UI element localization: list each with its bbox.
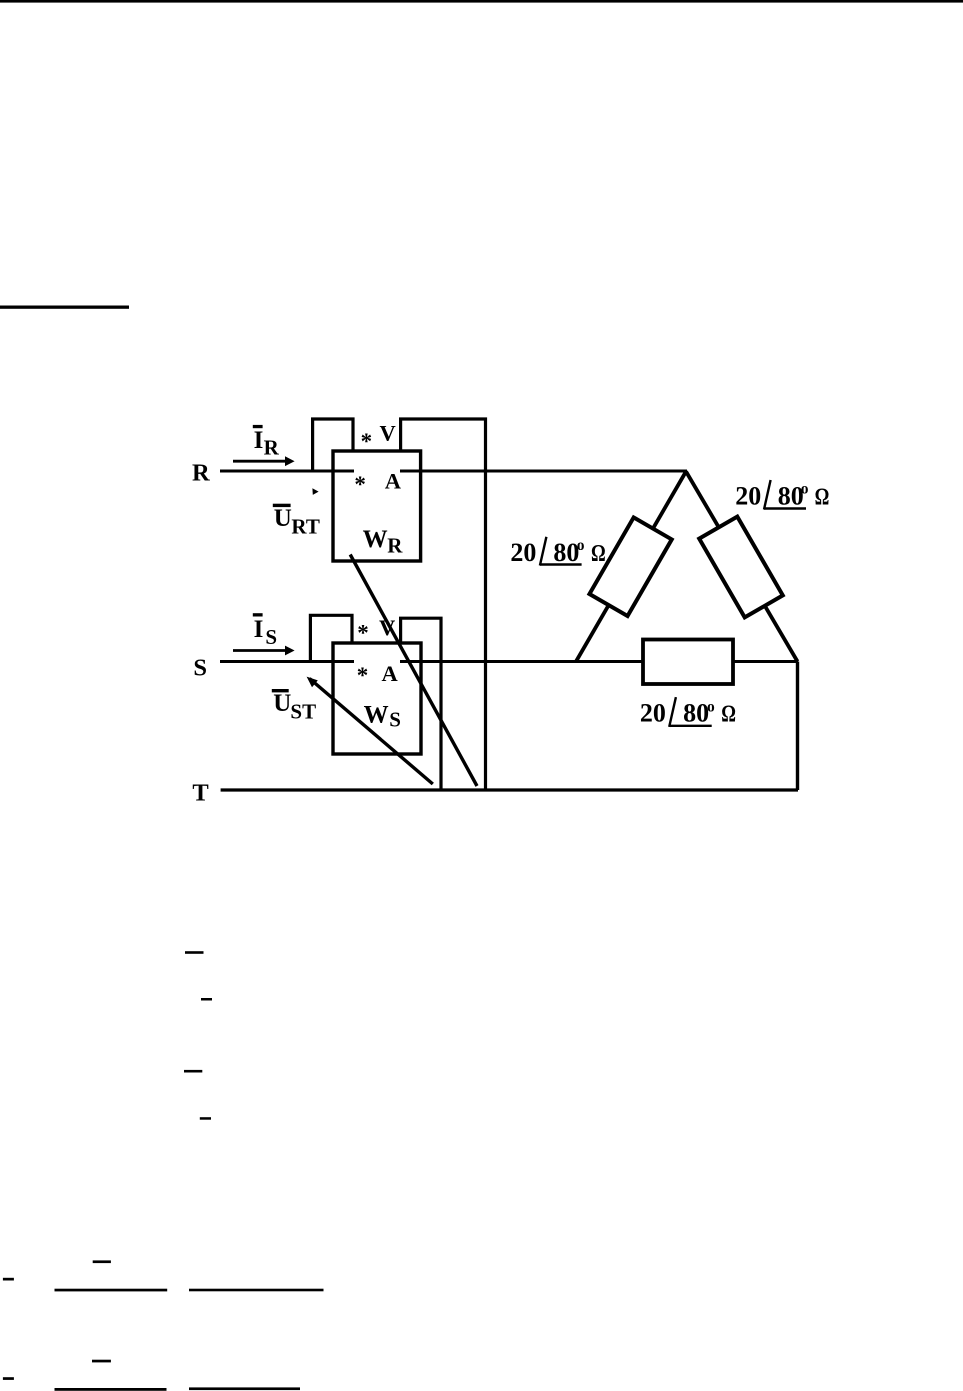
fraction bar 1 (formula group 2): [55, 1388, 167, 1391]
svg-text:S: S: [389, 708, 401, 732]
svg-text:80: 80: [683, 698, 709, 727]
svg-text:20: 20: [510, 538, 536, 567]
wire W_R voltage coil to node T: [401, 419, 486, 790]
svg-text:S: S: [265, 625, 277, 649]
overbar mark at margin (formula group 2): [3, 1377, 14, 1380]
impedance Z3 (bottom leg, 20∠80°): [643, 640, 733, 685]
overbar mark (formula group 2): [92, 1360, 111, 1363]
wattmeter W_R box: [333, 451, 421, 561]
overbar mark (equation line 1): [185, 951, 204, 954]
voltage arrow U_RT arrowhead: [312, 488, 318, 495]
label U_ST: [272, 689, 316, 723]
delta leg R (apex to left vertex, wire): [576, 472, 686, 662]
impedance Z1 (left leg, 20∠80°): [589, 517, 671, 616]
fraction bar 2 (formula group 2): [189, 1387, 300, 1390]
current arrow I_R: [233, 456, 295, 466]
svg-text:Ω: Ω: [721, 700, 736, 727]
delta leg (apex to right vertex, wire): [686, 472, 798, 662]
wire R line left segment: [220, 470, 354, 473]
svg-text:I: I: [254, 616, 264, 643]
label 20/80 ohm (bottom leg): [640, 697, 736, 727]
svg-text:A: A: [382, 661, 399, 686]
svg-text:S: S: [193, 655, 207, 682]
page top rule: [0, 0, 963, 3]
label I_R: [253, 425, 280, 460]
overbar mark (equation line 4): [200, 1117, 211, 1120]
left margin rule: [0, 306, 129, 309]
label 20/80 ohm (right leg): [735, 480, 829, 510]
svg-text:V: V: [379, 615, 395, 640]
wire S line left segment: [220, 660, 354, 663]
fraction bar 1 (formula group 1): [55, 1289, 168, 1292]
label W_S: [364, 702, 401, 732]
svg-text:o: o: [577, 537, 585, 554]
svg-text:*: *: [357, 621, 369, 646]
impedance Z2 (right leg, 20∠80°): [699, 517, 783, 618]
overbar mark (formula group 1): [93, 1260, 111, 1263]
wattmeter W_R voltage-terminal loop wire: [313, 419, 353, 472]
voltage arrow U_ST arrowhead: [307, 677, 318, 688]
voltage arrow U_ST line (to T wire): [310, 679, 433, 785]
label I_S: [253, 613, 277, 649]
svg-text:*: *: [354, 472, 366, 497]
svg-text:Ω: Ω: [815, 483, 830, 510]
wire T line: [221, 788, 798, 791]
svg-text:*: *: [361, 429, 373, 454]
wattmeter W_S voltage-terminal loop wire: [310, 615, 352, 661]
label 20/80 ohm (left leg): [510, 537, 605, 567]
wire W_S voltage coil to node T: [401, 618, 441, 790]
wire delta right vertex down to T line: [796, 662, 799, 791]
wire S line right segment / delta bottom leg: [400, 660, 798, 663]
label W_R: [363, 526, 404, 558]
svg-text:R: R: [264, 436, 280, 460]
svg-text:o: o: [707, 698, 715, 715]
wire R line right segment to delta apex: [400, 470, 687, 473]
voltage arrow U_RT line (to T wire): [350, 555, 477, 787]
svg-text:o: o: [801, 481, 809, 498]
svg-text:R: R: [192, 460, 210, 487]
svg-text:20: 20: [640, 698, 666, 727]
fraction bar 2 (formula group 1): [189, 1289, 324, 1292]
svg-text:I: I: [254, 427, 264, 454]
svg-text:W: W: [363, 526, 388, 553]
overbar mark at margin (formula group 1): [3, 1278, 14, 1281]
svg-text:*: *: [357, 663, 369, 688]
svg-text:W: W: [364, 702, 389, 729]
current arrow I_S: [233, 646, 295, 656]
overbar mark (equation line 2): [201, 998, 212, 1001]
svg-text:U: U: [273, 690, 291, 717]
svg-text:R: R: [387, 534, 403, 558]
svg-text:A: A: [385, 469, 402, 494]
svg-text:U: U: [274, 505, 292, 532]
svg-text:Ω: Ω: [591, 540, 606, 567]
overbar mark (equation line 3): [184, 1070, 202, 1073]
svg-text:V: V: [380, 421, 396, 446]
svg-text:T: T: [192, 780, 208, 807]
wattmeter W_S box: [333, 643, 421, 754]
svg-text:20: 20: [735, 481, 761, 510]
svg-text:RT: RT: [291, 515, 319, 539]
svg-text:80: 80: [553, 538, 579, 567]
label U_RT: [273, 504, 320, 539]
svg-text:ST: ST: [290, 699, 316, 723]
